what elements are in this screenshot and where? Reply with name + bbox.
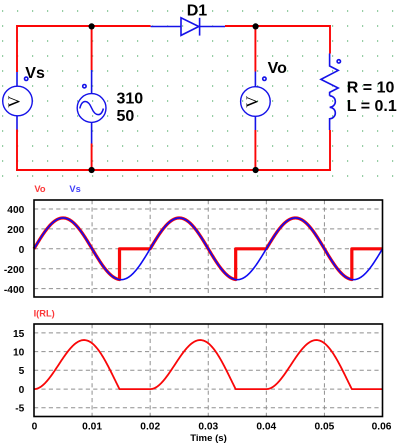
svg-text:L = 0.1: L = 0.1: [347, 98, 397, 115]
svg-text:Vo: Vo: [268, 60, 287, 77]
svg-text:0.05: 0.05: [314, 422, 334, 433]
node junction top source: [89, 23, 95, 29]
svg-text:Vs: Vs: [25, 65, 45, 82]
svg-text:0: 0: [19, 385, 25, 396]
svg-text:5: 5: [19, 366, 25, 377]
plot1 y labels: [4, 205, 25, 296]
trace Vs (blue): [34, 218, 383, 280]
svg-text:0.03: 0.03: [198, 422, 218, 433]
wire bottom rail: [16, 169, 331, 171]
svg-text:0.02: 0.02: [140, 422, 160, 433]
RL load branch: [321, 54, 341, 131]
sine source Vsin: [77, 70, 106, 144]
svg-text:0: 0: [19, 245, 25, 256]
svg-text:310: 310: [117, 91, 144, 108]
trace I(RL): [34, 340, 383, 389]
inductor L: [330, 96, 336, 130]
plot2 gridlines: [34, 333, 383, 408]
svg-text:0.04: 0.04: [256, 422, 276, 433]
plot2 x labels: [32, 422, 392, 433]
node junction top Vo: [253, 23, 259, 29]
svg-text:Time (s): Time (s): [190, 433, 227, 444]
svg-text:400: 400: [7, 205, 24, 216]
svg-text:200: 200: [7, 225, 24, 236]
plot2 frame: [34, 324, 383, 417]
svg-text:50: 50: [117, 108, 135, 125]
svg-text:-5: -5: [15, 404, 24, 415]
trace Vo (red): [34, 218, 383, 280]
wire top rail right segment: [225, 25, 330, 27]
svg-text:0.06: 0.06: [372, 422, 392, 433]
wire top rail left segment: [17, 25, 151, 27]
voltage probe Vs: [3, 72, 33, 130]
svg-text:10: 10: [13, 348, 25, 359]
wire source branch: [91, 26, 93, 170]
svg-text:V: V: [243, 96, 262, 108]
plot1 gridlines: [34, 209, 383, 289]
svg-text:D1: D1: [187, 3, 208, 20]
node junction bottom source: [89, 167, 95, 173]
diode D1: [151, 18, 225, 36]
voltage probe Vo: [241, 72, 271, 131]
svg-text:I(RL): I(RL): [34, 308, 55, 318]
plot2 y labels: [13, 329, 25, 415]
wire left rail: [16, 25, 18, 171]
svg-text:Vo: Vo: [34, 184, 46, 194]
svg-text:-400: -400: [4, 285, 25, 296]
wire Vo branch: [254, 26, 256, 170]
svg-text:15: 15: [13, 329, 25, 340]
svg-text:-200: -200: [4, 265, 25, 276]
resistor R: [321, 54, 338, 96]
svg-text:0: 0: [32, 422, 38, 433]
svg-text:0.01: 0.01: [82, 422, 102, 433]
svg-text:Vs: Vs: [69, 184, 80, 194]
node junction bottom Vo: [253, 167, 259, 173]
plot1 frame: [34, 200, 383, 297]
wire right rail: [329, 25, 331, 171]
svg-text:R = 10: R = 10: [347, 79, 395, 96]
svg-text:V: V: [5, 96, 24, 108]
